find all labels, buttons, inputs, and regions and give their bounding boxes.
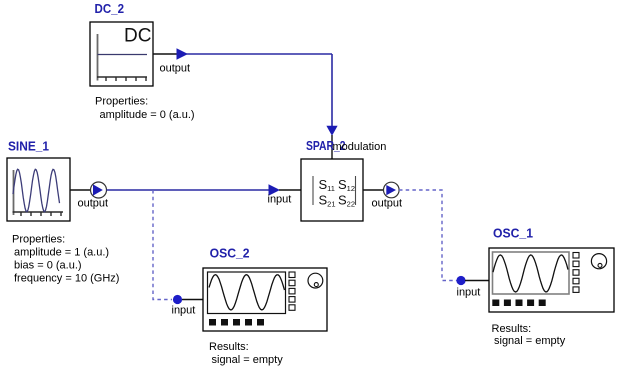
svg-text:output: output: [372, 198, 403, 210]
wire stub into SPAR top: [331, 135, 333, 159]
svg-text:DC: DC: [124, 25, 151, 46]
wire SPAR output stub: [363, 189, 384, 191]
svg-text:amplitude = 0 (a.u.): amplitude = 0 (a.u.): [100, 109, 195, 121]
block OSC_1: [489, 248, 614, 312]
svg-text:input: input: [172, 305, 196, 317]
svg-text:OSC_2: OSC_2: [210, 245, 250, 260]
port arrow SPAR input: [269, 184, 281, 195]
svg-text:frequency = 10 (GHz): frequency = 10 (GHz): [14, 273, 119, 285]
wire stub into SPAR left: [279, 189, 301, 191]
dashed wire junction to OSC_2 (vertical): [153, 190, 172, 300]
svg-text:Results:: Results:: [209, 341, 249, 353]
svg-text:DC_2: DC_2: [95, 1, 125, 16]
svg-text:amplitude = 1 (a.u.): amplitude = 1 (a.u.): [14, 247, 109, 259]
block DC_2: [90, 22, 153, 86]
wire DC_2 to SPAR (horizontal): [186, 53, 332, 55]
svg-text:bias = 0 (a.u.): bias = 0 (a.u.): [14, 260, 82, 272]
svg-text:modulation: modulation: [333, 141, 387, 153]
svg-text:input: input: [457, 287, 481, 299]
wire SINE_1 to SPAR: [107, 189, 270, 191]
svg-text:signal = empty: signal = empty: [494, 335, 566, 347]
block OSC_2: [203, 268, 327, 331]
svg-text:signal = empty: signal = empty: [212, 354, 284, 366]
block SPAR_2: [301, 159, 363, 221]
svg-text:Properties:: Properties:: [95, 96, 148, 108]
svg-text:Results:: Results:: [492, 323, 532, 335]
port circle SPAR output: [384, 182, 400, 198]
port arrow SPAR modulation input: [326, 126, 337, 136]
wire stub into OSC_2: [182, 299, 203, 301]
port arrow DC_2 output: [177, 48, 189, 59]
node dot OSC_1 input: [456, 276, 465, 285]
svg-text:Properties:: Properties:: [12, 234, 65, 246]
wire SINE_1 output stub: [70, 189, 91, 191]
wire DC_2 to SPAR (vertical): [331, 54, 333, 127]
properties SINE_1: [12, 234, 119, 285]
results OSC_1: [492, 323, 566, 347]
results OSC_2: [209, 341, 283, 366]
dashed wire SPAR to OSC_1: [399, 190, 457, 281]
svg-text:output: output: [160, 63, 191, 75]
port circle SINE_1 output: [91, 182, 107, 198]
port triangle SPAR output: [386, 185, 396, 195]
port triangle SINE_1 output: [93, 184, 103, 195]
svg-text:input: input: [268, 194, 292, 206]
svg-text:output: output: [78, 198, 109, 210]
properties DC_2: [95, 96, 195, 122]
svg-text:OSC_1: OSC_1: [493, 225, 533, 240]
wire DC_2 output stub: [153, 53, 177, 55]
wire stub into OSC_1: [465, 280, 489, 282]
node dot OSC_2 input: [173, 295, 182, 304]
svg-text:SINE_1: SINE_1: [8, 138, 49, 153]
block SINE_1: [7, 158, 70, 221]
